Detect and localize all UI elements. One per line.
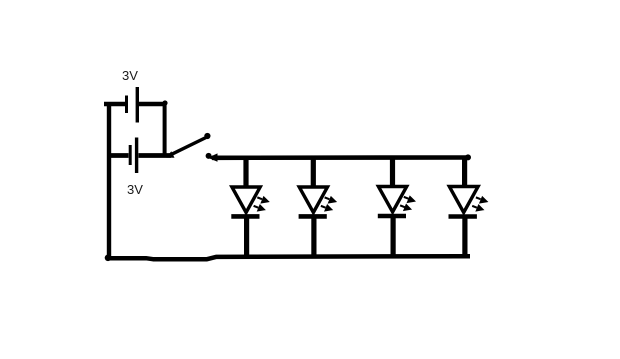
wire left rail: [107, 102, 111, 258]
wire D4 cathode: [462, 217, 467, 257]
LED D1: [231, 156, 267, 257]
wire D2 anode: [311, 156, 316, 186]
wire battery link vertical: [163, 102, 167, 156]
LED D2 triangle: [299, 187, 327, 213]
wire bottom bus: [106, 256, 470, 259]
wire D1 anode: [243, 156, 248, 186]
LED D1 cathode bar: [231, 214, 259, 219]
LED D3: [378, 156, 414, 257]
LED D2 light arrows: [321, 197, 335, 210]
wire top bus: [212, 155, 468, 160]
wire D3 anode: [390, 156, 395, 186]
wire D4 anode: [462, 156, 467, 186]
wire D3 cathode: [391, 217, 396, 258]
LED D3 triangle: [378, 187, 406, 213]
LED D1 triangle: [232, 187, 260, 213]
LED D3 light arrows: [400, 197, 414, 210]
switch S1 lever tip dot: [204, 133, 210, 139]
LED D4 light arrows: [472, 197, 486, 210]
battery B1: [104, 87, 165, 123]
svg-text:3V: 3V: [122, 68, 138, 83]
switch S1 lever arrowhead: [166, 151, 174, 158]
svg-text:3V: 3V: [127, 182, 143, 197]
LED D1 light arrows: [254, 197, 268, 210]
LED D4: [449, 156, 487, 257]
switch S1 lever: [169, 138, 207, 156]
wire D2 cathode: [311, 217, 316, 257]
switch S1 contact dot: [206, 153, 212, 159]
LED D3 cathode bar: [378, 214, 406, 219]
node bottom bus left dot: [105, 254, 112, 261]
battery B2: [107, 138, 171, 174]
LED D4 cathode bar: [449, 214, 477, 219]
LED D4 triangle: [449, 187, 478, 213]
wire D1 cathode: [244, 217, 249, 257]
LED D2: [299, 156, 335, 257]
LED D2 cathode bar: [299, 214, 327, 219]
node top bus right dot: [465, 154, 471, 160]
wire top bus left arrowhead: [208, 153, 218, 161]
node battery link corner: [162, 100, 167, 105]
